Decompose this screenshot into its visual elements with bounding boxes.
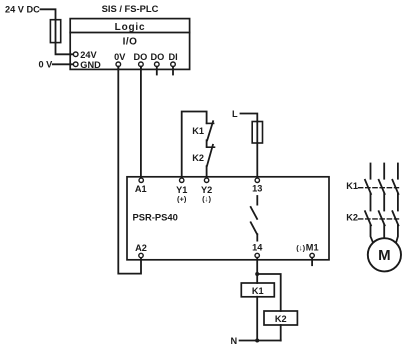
terminal DO 2 with unused stub [151, 52, 165, 75]
svg-text:Y2: Y2 [201, 185, 212, 195]
safety contact blade 2 [251, 222, 257, 234]
node L supply label [232, 109, 238, 119]
terminal A2 [135, 243, 147, 258]
PLC box U1 outline [70, 19, 189, 70]
motor M [368, 238, 401, 271]
svg-text:0V: 0V [114, 52, 126, 62]
svg-text:SIS / FS-PLC: SIS / FS-PLC [102, 3, 159, 14]
terminal Y1 (+) [176, 178, 187, 203]
svg-text:K1: K1 [192, 126, 204, 136]
label Logic [115, 22, 146, 33]
PLC Logic section divider [70, 32, 189, 34]
wire DO to A1 [140, 67, 142, 178]
PLC title SIS / FS-PLC [102, 3, 159, 14]
wire K1 coil to N [256, 297, 258, 341]
contactor K2 main contact blades [365, 211, 398, 225]
svg-text:(+): (+) [177, 195, 187, 204]
svg-text:(↓): (↓) [296, 243, 305, 252]
terminal Y2 (down) [201, 178, 212, 203]
coil K2 [264, 311, 297, 325]
contactor K1 main contact blades [365, 180, 398, 194]
safety contact lower stub [256, 234, 258, 240]
safety contact blade 1 [251, 207, 257, 219]
wire 0V to A2 (down, across bottom, up) [118, 67, 141, 274]
svg-text:K1: K1 [252, 286, 264, 296]
node N label [231, 336, 238, 346]
safety relay box PSR-PS40 outline [127, 177, 329, 260]
label K2 (main contacts) [346, 213, 358, 223]
wire feedback loop Y1 up and over [182, 112, 207, 179]
node 0 V supply label [39, 60, 54, 70]
wire L to fuse F2 [241, 114, 258, 122]
wire branch junction to K2 coil [257, 274, 281, 311]
terminal 0V [114, 52, 126, 70]
wire fuse F2 to terminal 13 [256, 143, 258, 178]
svg-text:DO: DO [151, 52, 165, 62]
svg-text:K1: K1 [346, 181, 358, 191]
fuse F1 [50, 20, 60, 43]
wire fuse F1 to 24V terminal [56, 43, 74, 55]
svg-text:K2: K2 [192, 153, 204, 163]
three-phase supply stubs L1 L2 L3 [371, 164, 398, 179]
svg-text:13: 13 [252, 184, 262, 194]
svg-text:K2: K2 [275, 314, 287, 324]
wire 14 down to junction [256, 258, 258, 283]
svg-text:L: L [232, 109, 238, 119]
terminal DI with unused stub [169, 52, 178, 75]
svg-text:(↓): (↓) [202, 195, 211, 204]
svg-text:DO: DO [134, 52, 148, 62]
dashed linkage K1 [359, 187, 399, 189]
wire K2 aux to Y2 [206, 166, 208, 178]
svg-text:PSR-PS40: PSR-PS40 [133, 211, 178, 222]
svg-text:0 V: 0 V [39, 60, 54, 70]
label I/O [123, 37, 138, 48]
svg-text:M1: M1 [306, 242, 319, 252]
junction dot above K1 coil [255, 272, 259, 276]
node 24 V DC supply label [5, 4, 40, 14]
wire from 24 V DC to fuse F1 [41, 9, 56, 19]
svg-text:K2: K2 [346, 213, 358, 223]
wires from K2 contacts to motor [371, 225, 398, 245]
fuse F2 [252, 122, 262, 144]
svg-text:14: 14 [252, 242, 263, 252]
safety contact 13-14 upper stub [256, 196, 258, 205]
wire K2 coil down to N wire [280, 325, 282, 341]
wires between K1 and K2 contact rows [371, 194, 398, 211]
wire N rail [240, 340, 281, 342]
wire 0 V to GND terminal [53, 63, 73, 65]
terminal GND [73, 60, 101, 70]
svg-text:24 V DC: 24 V DC [5, 4, 40, 14]
junction dot on N wire [255, 339, 259, 343]
dashed linkage K2 [359, 218, 399, 220]
svg-text:A1: A1 [135, 184, 147, 194]
terminal A1 [135, 178, 147, 194]
terminal M1 (down) with unused stub [296, 242, 318, 265]
svg-text:Logic: Logic [115, 22, 146, 33]
wire between K1 and K2 aux contacts [206, 140, 208, 147]
svg-text:Y1: Y1 [176, 185, 187, 195]
coil K1 [241, 283, 274, 297]
svg-text:DI: DI [169, 52, 178, 62]
auxiliary contact K2 (feedback) [207, 145, 215, 166]
terminal 13 [252, 178, 262, 193]
svg-text:I/O: I/O [123, 37, 138, 48]
terminal DO 1 [134, 52, 148, 70]
svg-text:24V: 24V [80, 50, 97, 60]
svg-text:N: N [231, 336, 238, 346]
svg-text:A2: A2 [135, 243, 147, 253]
label K2 (feedback contact) [192, 153, 204, 163]
label K1 (feedback contact) [192, 126, 204, 136]
label PSR-PS40 [133, 211, 178, 222]
svg-text:M: M [378, 247, 391, 264]
terminal 24V [73, 50, 97, 60]
label K1 (main contacts) [346, 181, 358, 191]
svg-text:GND: GND [80, 60, 101, 70]
auxiliary contact K1 (feedback) [207, 121, 214, 140]
terminal 14 [252, 242, 263, 257]
